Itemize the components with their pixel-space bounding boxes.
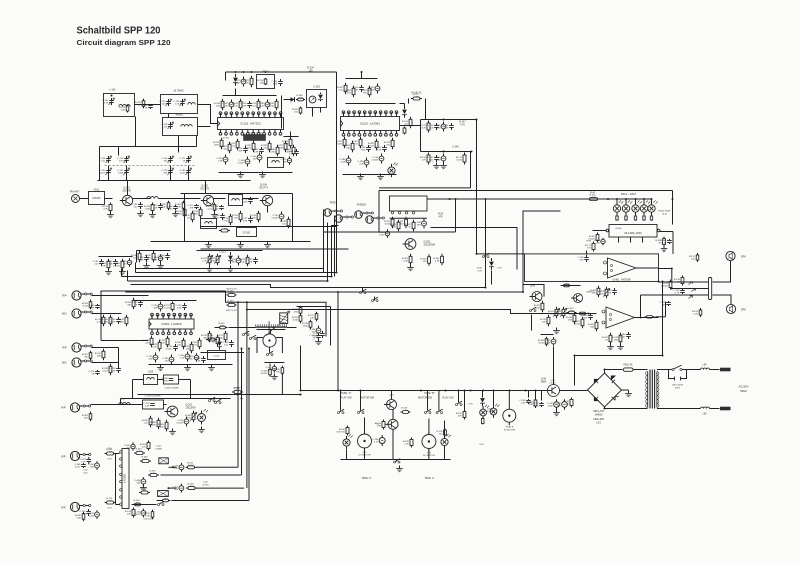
electrolytic C512 <box>133 509 145 518</box>
subtitle text <box>77 38 171 47</box>
diode D201 <box>228 252 233 264</box>
svg-text:56K: 56K <box>84 417 88 419</box>
resistor R143 <box>456 153 466 165</box>
resistor R240 <box>95 349 105 361</box>
junction <box>607 198 609 200</box>
svg-text:56K: 56K <box>174 489 178 491</box>
label PLAY SW <box>341 396 353 399</box>
ground <box>105 269 112 275</box>
resistor R513 <box>375 420 385 430</box>
capacitor C206 <box>175 303 186 310</box>
wire <box>159 198 201 200</box>
resistor R404 <box>634 215 636 221</box>
switch S901 <box>672 365 701 371</box>
feedback resistor R436 <box>561 281 581 287</box>
resistor R218 <box>209 335 219 347</box>
wire <box>135 117 137 147</box>
ground <box>237 172 244 178</box>
svg-text:C-139: C-139 <box>313 87 320 89</box>
capacitor C152 <box>241 197 258 204</box>
capacitor C244 <box>313 331 325 338</box>
resistor R516 <box>456 390 473 420</box>
resistor R153 <box>192 207 202 219</box>
ground <box>553 410 560 416</box>
ground <box>553 328 560 334</box>
resistor R203 <box>102 315 112 327</box>
svg-text:D901~911: D901~911 <box>593 411 604 413</box>
wire <box>593 230 607 232</box>
label PHONO <box>357 204 366 207</box>
resistor R204 <box>118 315 128 327</box>
svg-text:1M: 1M <box>223 228 226 230</box>
svg-text:CF-201: CF-201 <box>243 233 251 235</box>
capacitor C110 <box>271 79 282 86</box>
capacitor C517 <box>532 391 543 408</box>
wire <box>400 125 421 127</box>
electrolytic C137 <box>357 158 369 168</box>
LED D402 <box>622 198 632 215</box>
jack R/P 5 <box>62 343 92 352</box>
resistor R241 <box>102 364 112 376</box>
svg-text:(IC40): (IC40) <box>615 228 621 230</box>
electrolytic C902e <box>555 399 567 410</box>
svg-text:F901 2A: F901 2A <box>623 364 632 367</box>
switch S508 <box>267 347 274 355</box>
transistor Q402 <box>571 291 594 303</box>
capacitor C240 <box>109 366 120 373</box>
svg-text:PHONO: PHONO <box>357 204 366 207</box>
svg-text:2.2K: 2.2K <box>338 89 343 91</box>
svg-text:Circuit diagram SPP 120: Circuit diagram SPP 120 <box>77 38 171 47</box>
capacitor C107 <box>166 205 177 210</box>
tuning gang C2a <box>161 156 173 163</box>
under-bundle electrolytic C163 <box>121 258 132 266</box>
svg-text:D880: D880 <box>541 382 547 384</box>
svg-text:22K: 22K <box>160 426 164 428</box>
svg-text:100K: 100K <box>150 473 156 475</box>
wire <box>185 194 293 242</box>
AC prong 2 <box>720 407 731 411</box>
svg-text:R/P: R/P <box>62 346 67 350</box>
ground <box>206 266 213 272</box>
resistor R405 <box>643 215 645 221</box>
trap block CF101 <box>257 71 275 89</box>
electrolytic C155 <box>272 212 284 222</box>
wire drop to motor rail <box>337 291 339 392</box>
svg-text:22K: 22K <box>359 163 363 165</box>
svg-text:56K: 56K <box>219 337 223 339</box>
resistor R501 <box>105 448 116 461</box>
ground <box>407 265 414 271</box>
svg-text:22K: 22K <box>218 160 222 162</box>
label <box>659 211 672 216</box>
tuning gang C2d <box>179 168 191 175</box>
svg-text:TAPE “B”: TAPE “B” <box>424 391 435 395</box>
wire <box>181 193 293 195</box>
capacitor C141 <box>427 123 438 130</box>
bottom bus <box>341 459 451 461</box>
svg-text:10.7MHZ: 10.7MHZ <box>173 90 184 93</box>
wire <box>524 291 526 293</box>
capacitor C131 <box>352 85 363 92</box>
AC prong 1 <box>720 368 731 372</box>
under-bundle capacitor C161 <box>92 259 103 266</box>
capacitor C143 <box>442 123 453 130</box>
svg-text:TAPE “a”: TAPE “a” <box>424 477 434 480</box>
wire <box>226 71 337 73</box>
svg-text:3.3K: 3.3K <box>377 149 382 151</box>
jack column resistor R245 <box>75 512 85 522</box>
resistor R151 <box>176 207 186 219</box>
resistor R120 <box>269 145 279 157</box>
resistor R213 <box>206 335 217 341</box>
ground <box>377 174 384 180</box>
svg-text:(4-6): (4-6) <box>662 214 667 216</box>
resistor R133 <box>361 86 371 98</box>
resistor R514 <box>436 429 446 437</box>
wire <box>219 172 293 174</box>
resistor R430 <box>661 280 672 290</box>
svg-text:6.8K: 6.8K <box>270 151 275 153</box>
svg-text:56K: 56K <box>163 172 167 174</box>
diode D503 <box>480 390 485 407</box>
feedback resistor R420 <box>590 286 600 298</box>
svg-text:2SC2878A: 2SC2878A <box>424 244 436 247</box>
svg-text:47K: 47K <box>142 446 146 448</box>
resistor R506 <box>148 470 159 476</box>
capacitor C144 <box>427 155 438 162</box>
resistor R202 <box>95 315 105 327</box>
resistor R230 <box>232 387 243 393</box>
junction <box>574 198 674 357</box>
svg-text:4.7K: 4.7K <box>273 83 278 85</box>
switch S503 <box>425 391 432 414</box>
jack column resistor R243 <box>82 351 92 361</box>
tuning gang C2b <box>179 156 191 163</box>
wire <box>133 380 191 399</box>
input cap C421 <box>567 308 577 314</box>
transistor Q102 <box>200 185 214 206</box>
svg-text:47K: 47K <box>248 261 252 263</box>
svg-text:3.3K: 3.3K <box>177 307 182 309</box>
svg-text:400V: 400V <box>675 388 681 390</box>
svg-text:2.2K: 2.2K <box>137 451 142 453</box>
svg-text:6.8K: 6.8K <box>341 161 346 163</box>
svg-text:47K: 47K <box>587 247 591 249</box>
jack MIC 1 <box>62 309 92 318</box>
pot VR402 <box>548 307 560 319</box>
resistor R307 <box>433 254 443 266</box>
tuning gang C1d <box>117 168 129 175</box>
electrolytic C513 <box>372 435 385 446</box>
ground <box>617 344 624 350</box>
ground <box>661 246 668 252</box>
capacitor C117 <box>252 147 263 154</box>
ground <box>140 485 147 491</box>
svg-text:4.7K: 4.7K <box>421 127 426 129</box>
wire <box>127 181 129 196</box>
svg-text:C-507: C-507 <box>156 446 163 448</box>
svg-text:10K: 10K <box>90 466 94 468</box>
capacitor C516 <box>519 391 530 405</box>
svg-text:100K: 100K <box>89 307 95 309</box>
label PLAY SW b <box>443 396 455 399</box>
under-bundle resistor R161 <box>100 259 110 271</box>
resistor R217 <box>201 331 211 343</box>
capacitor C402 <box>660 239 671 244</box>
switch S202 <box>209 397 216 401</box>
svg-text:0.0047: 0.0047 <box>238 162 245 164</box>
resistor R901 <box>563 398 573 408</box>
electrolytic C208e <box>146 353 158 363</box>
svg-text:6.8K: 6.8K <box>220 325 225 327</box>
svg-text:3.3K: 3.3K <box>223 220 228 222</box>
switch S204 <box>243 331 250 335</box>
svg-text:PLAY SW: PLAY SW <box>443 396 455 399</box>
wire <box>297 307 331 346</box>
svg-text:1M: 1M <box>404 410 407 412</box>
transistor Q503 <box>384 395 397 410</box>
electrolytic C136 <box>339 156 351 166</box>
wire <box>90 300 92 414</box>
svg-text:0.047: 0.047 <box>234 390 240 392</box>
svg-text:10/16: 10/16 <box>292 319 298 321</box>
detector sub resistor R163 <box>131 251 141 263</box>
svg-text:100K: 100K <box>303 325 309 327</box>
svg-text:0.0068: 0.0068 <box>155 449 162 451</box>
svg-text:C-209 0.0047/M: C-209 0.0047/M <box>145 396 161 398</box>
wire <box>300 346 302 391</box>
svg-text:6.8K: 6.8K <box>435 260 440 262</box>
antenna jack FM ANT <box>70 191 89 203</box>
switch S203 <box>215 399 222 403</box>
svg-text:6.8K: 6.8K <box>145 208 150 210</box>
capacitor C212 <box>222 340 233 347</box>
wire <box>343 174 397 176</box>
ground <box>157 365 164 371</box>
svg-text:3.3K: 3.3K <box>111 370 116 372</box>
svg-text:Q-40: Q-40 <box>530 286 536 288</box>
svg-text:2SC774: 2SC774 <box>259 187 268 190</box>
jack R/P 4 <box>61 502 90 511</box>
boxed cap C504 <box>159 458 169 464</box>
svg-text:4.7K: 4.7K <box>107 459 112 461</box>
wire <box>486 262 492 288</box>
label LN-0120 <box>486 409 495 413</box>
wire <box>92 296 149 314</box>
resistor R422 <box>574 317 584 329</box>
svg-text:56K: 56K <box>614 339 618 341</box>
svg-text:2.2K: 2.2K <box>175 103 180 105</box>
svg-text:22K: 22K <box>252 217 256 219</box>
resistor R304 <box>405 220 415 232</box>
tuning gang C2c <box>161 168 173 175</box>
svg-text:4.7K: 4.7K <box>202 260 207 262</box>
resistor R111 <box>214 99 224 111</box>
svg-text:DC MOTOR: DC MOTOR <box>423 455 435 457</box>
wire <box>133 198 151 200</box>
svg-text:100K: 100K <box>242 201 248 203</box>
svg-text:0.047: 0.047 <box>188 486 194 488</box>
capacitor C106 <box>151 203 162 210</box>
wire <box>284 136 299 138</box>
capacitor C204 <box>131 300 142 307</box>
electrolytic C109 <box>234 77 246 87</box>
svg-text:56K: 56K <box>361 149 365 151</box>
bus loop around IC201 <box>101 291 326 337</box>
stair wire right 2 <box>523 285 544 297</box>
label TAPE A <box>341 391 352 395</box>
svg-text:L203: L203 <box>148 372 154 374</box>
resistor R110 <box>206 203 216 213</box>
preamp IC501 LA3160 (vertical) <box>120 449 129 509</box>
transistor Q401 <box>530 286 543 302</box>
label <box>155 446 162 451</box>
wire <box>633 369 648 371</box>
capacitor C423 <box>619 332 630 339</box>
stereo lamp D104 <box>388 163 398 178</box>
wire <box>651 199 653 205</box>
svg-text:0.0047: 0.0047 <box>113 265 120 267</box>
resistor R424 <box>602 333 612 345</box>
svg-text:0.0047: 0.0047 <box>272 217 279 219</box>
meter driver IC403 LB1405 <box>606 225 660 243</box>
resistor R410 <box>655 237 665 247</box>
resistor R131 <box>337 83 347 95</box>
coil L207 <box>119 399 130 405</box>
resistor R401 <box>587 193 600 201</box>
svg-text:0.047: 0.047 <box>102 370 108 372</box>
wire <box>336 72 338 273</box>
wire <box>196 136 198 147</box>
svg-text:10/16: 10/16 <box>533 405 539 407</box>
svg-text:TP40: TP40 <box>586 241 592 243</box>
svg-text:Q-90: Q-90 <box>541 379 547 381</box>
resistor R135 <box>344 141 354 153</box>
capacitor C202 <box>246 257 257 264</box>
svg-text:L-101: L-101 <box>109 89 116 92</box>
resistor R155 <box>232 211 242 223</box>
wire <box>421 151 472 153</box>
resistor R216 <box>302 320 312 330</box>
junction <box>235 71 267 73</box>
svg-text:C-50: C-50 <box>203 482 209 484</box>
svg-text:100K: 100K <box>548 405 554 407</box>
wire <box>265 363 285 395</box>
ground <box>271 374 278 380</box>
resistor R434 <box>689 253 699 262</box>
resistor R140 <box>411 93 422 101</box>
ground <box>227 266 234 272</box>
capacitor C203 <box>109 317 120 324</box>
svg-text:10/16: 10/16 <box>188 465 194 467</box>
wire <box>121 399 231 405</box>
LED D401 <box>613 198 623 215</box>
amp block IC401 <box>525 254 659 282</box>
wire <box>625 199 627 205</box>
LED D501 <box>336 432 352 450</box>
svg-text:47K: 47K <box>458 415 462 417</box>
electrolytic C210 <box>178 352 190 362</box>
label solenoid <box>479 444 484 446</box>
pot VR403 <box>555 307 567 319</box>
title text <box>77 26 161 37</box>
svg-text:MIC: MIC <box>62 361 67 365</box>
svg-text:47K: 47K <box>347 92 351 94</box>
resistor R515 <box>403 438 413 448</box>
wire <box>198 126 211 128</box>
resistor R201 <box>239 255 249 267</box>
electrolytic C145 <box>434 154 446 164</box>
svg-text:0.0047: 0.0047 <box>166 348 173 350</box>
electrolytic C217 <box>188 353 199 361</box>
wire <box>149 364 233 366</box>
wire <box>657 369 672 371</box>
svg-text:TAPE “A”: TAPE “A” <box>341 391 352 395</box>
electrolytic C216 <box>177 417 189 427</box>
ground <box>205 242 212 248</box>
resistor R136 <box>352 137 362 149</box>
electrolytic C511 <box>88 510 100 519</box>
ground <box>119 269 126 275</box>
svg-text:10/16: 10/16 <box>268 105 274 107</box>
junction <box>476 253 478 255</box>
wire <box>421 119 477 121</box>
svg-text:22K: 22K <box>153 207 157 209</box>
wire <box>420 120 422 152</box>
label TAPE a <box>424 477 434 480</box>
label <box>143 519 154 521</box>
filter block CF201 <box>237 228 257 237</box>
jack R/P 3 <box>61 451 90 460</box>
svg-text:TAPE “b”: TAPE “b” <box>361 477 371 480</box>
resistor R211 <box>183 342 193 354</box>
resistor R126 <box>296 95 305 101</box>
svg-text:2.2K: 2.2K <box>240 261 245 263</box>
resistor R303 <box>397 217 407 229</box>
resistor R156 <box>250 211 260 223</box>
resistor R518 <box>261 367 272 376</box>
wire <box>541 335 554 385</box>
pot VR202 <box>209 254 221 266</box>
svg-text:2.2K: 2.2K <box>599 293 604 295</box>
ground <box>237 242 244 248</box>
svg-text:IC102 LA3361: IC102 LA3361 <box>360 122 380 126</box>
svg-text:3.3K: 3.3K <box>196 360 201 362</box>
op-amp IC102 LA3361 <box>341 111 400 136</box>
svg-text:22K: 22K <box>127 513 131 515</box>
resistor R206 <box>164 302 174 312</box>
svg-text:R404~R408: R404~R408 <box>659 211 672 213</box>
svg-text:2.2K: 2.2K <box>404 443 409 445</box>
label <box>83 470 88 475</box>
resistor R519 <box>274 366 284 376</box>
svg-text:22K: 22K <box>592 197 596 199</box>
switch S506b <box>158 501 165 505</box>
LED J-207 <box>198 409 209 424</box>
pot VR201 <box>201 254 213 266</box>
svg-text:50HZ: 50HZ <box>740 389 747 393</box>
wire <box>237 301 248 488</box>
bus wire 2 <box>122 226 339 277</box>
wire <box>92 348 119 363</box>
junction <box>237 369 606 410</box>
diode D301 <box>489 258 502 270</box>
wire <box>168 114 170 118</box>
svg-text:47K: 47K <box>242 105 246 107</box>
resistor R103 <box>144 203 154 213</box>
motor M3 <box>503 391 516 432</box>
